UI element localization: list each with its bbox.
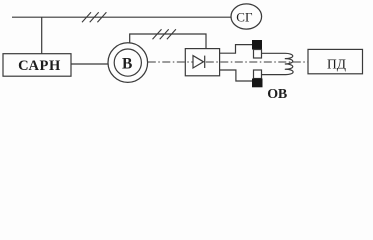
brush (bottom, filled)	[252, 79, 263, 88]
wire rectifier top output to brush	[220, 45, 252, 54]
shaft dash-dot line	[148, 61, 308, 63]
slip ring (top)	[254, 50, 262, 59]
diode VD	[193, 56, 205, 68]
svg-text:САРН: САРН	[18, 58, 61, 74]
svg-text:ПД: ПД	[327, 56, 346, 71]
regulator САРН box	[3, 54, 71, 76]
exciter В outer circle	[108, 43, 148, 83]
brush (top, filled)	[252, 40, 262, 50]
wire САРН to В	[71, 63, 109, 65]
three-phase hatch marks on exciter output	[153, 29, 176, 39]
slip ring (bottom)	[254, 70, 262, 79]
prime mover ПД box	[308, 49, 363, 73]
wire bus top	[12, 16, 231, 18]
three-phase hatch marks on bus	[82, 12, 106, 22]
rectifier box	[185, 49, 219, 76]
field winding ОВ coil	[262, 53, 294, 74]
wire rectifier bottom output to brush	[220, 70, 253, 81]
svg-text:В: В	[122, 56, 132, 73]
exciter В inner circle	[114, 49, 141, 76]
svg-text:ОВ: ОВ	[267, 87, 287, 101]
generator СГ	[231, 4, 262, 29]
wire drop from bus to САРН	[41, 17, 43, 54]
svg-text:СГ: СГ	[236, 9, 253, 24]
wire from В top	[130, 34, 206, 49]
